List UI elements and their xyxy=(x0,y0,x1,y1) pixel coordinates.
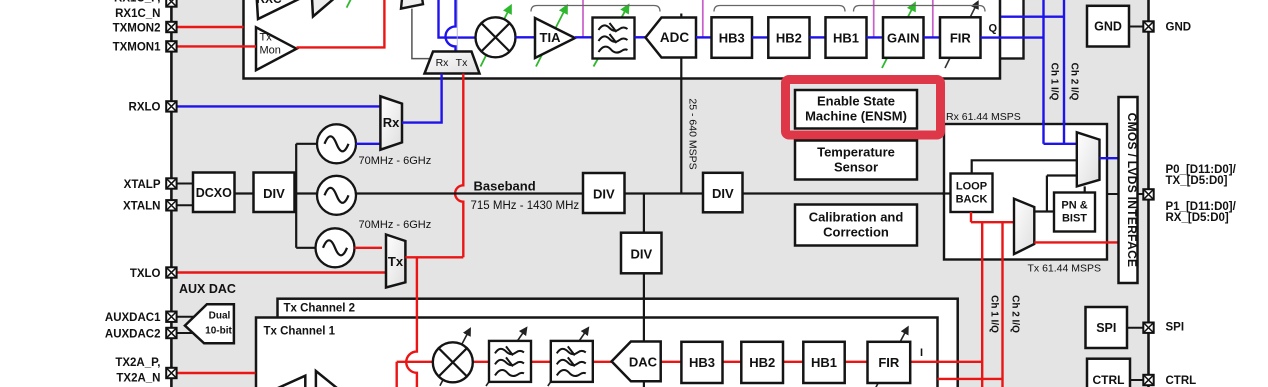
magenta cal line 3 xyxy=(873,0,875,37)
svg-text:Tx Channel 2: Tx Channel 2 xyxy=(284,302,356,314)
wire Tx data mux to PN BIST black xyxy=(1034,176,1077,212)
svg-text:DAC: DAC xyxy=(629,355,658,370)
wire Rx mux output blue xyxy=(402,74,442,123)
svg-text:Ch 1 I/Q: Ch 1 I/Q xyxy=(989,295,1000,333)
mux Rx LO xyxy=(380,96,402,149)
block SPI xyxy=(1086,307,1128,348)
svg-text:TX_[D5:D0]: TX_[D5:D0] xyxy=(1166,175,1228,187)
svg-text:10-bit: 10-bit xyxy=(205,326,232,337)
wire HB1 to GAIN blue xyxy=(867,36,884,38)
block LOOP BACK xyxy=(951,174,993,213)
svg-text:Calibration and: Calibration and xyxy=(809,210,904,225)
magenta cal line 4 xyxy=(932,0,934,37)
filter lowpass Tx 1 xyxy=(489,341,531,382)
chip boundary right edge xyxy=(1147,0,1150,387)
wire DAC clock black xyxy=(643,381,645,387)
magenta cal line 2 xyxy=(702,0,704,37)
svg-text:Correction: Correction xyxy=(823,225,889,240)
amplifier 2 (cut at top) xyxy=(311,0,337,17)
black arrow through FIR Rx xyxy=(945,3,978,69)
pin XTALN xyxy=(166,200,176,210)
svg-text:XTALN: XTALN xyxy=(123,201,160,213)
pin RXLO xyxy=(166,101,176,111)
highlight red box around ENSM xyxy=(786,80,941,136)
svg-text:HB2: HB2 xyxy=(776,30,802,45)
block DIV 1 xyxy=(254,173,295,213)
interface sub-box (loopback group) xyxy=(944,124,1107,260)
Rx Channel 2 box (partial, behind) xyxy=(985,0,1024,59)
svg-text:RXLO: RXLO xyxy=(129,102,161,114)
wire SPI stub xyxy=(1127,327,1144,329)
wire FIR Q output blue xyxy=(981,36,1044,38)
block DIV 3 xyxy=(621,233,662,274)
mux Tx LO xyxy=(386,235,405,288)
wire AUXDAC stubs xyxy=(177,317,194,333)
svg-text:TXLO: TXLO xyxy=(130,268,161,280)
svg-text:BIST: BIST xyxy=(1062,213,1087,225)
svg-text:XTALP: XTALP xyxy=(124,179,161,191)
amplifier Tx PA right (cut) xyxy=(316,371,353,387)
pin TXMON2 xyxy=(166,22,176,32)
wire Tx mux output red xyxy=(405,256,463,258)
svg-text:TX2A_N: TX2A_N xyxy=(116,373,160,385)
green gain arrow through TIA xyxy=(536,7,567,67)
block HB3 Tx xyxy=(681,342,722,383)
block CTRL xyxy=(1087,359,1130,387)
wire GND stub xyxy=(1129,26,1143,28)
wire ADC sample clock black xyxy=(680,14,682,194)
svg-text:HB1: HB1 xyxy=(811,355,837,370)
pin TXLO xyxy=(166,267,176,277)
wire blue from Rx Tx switch up with hop xyxy=(446,0,456,52)
bus Ch2 I/Q blue vertical xyxy=(1063,0,1065,144)
wire HB2 to HB1 blue xyxy=(810,36,826,38)
green gain arrow through Rx mixer xyxy=(481,7,511,67)
svg-text:Rx: Rx xyxy=(383,115,400,130)
wire GAIN to FIR blue xyxy=(924,36,941,38)
svg-text:DIV: DIV xyxy=(630,246,652,261)
block GAIN xyxy=(883,17,924,58)
black arrow through Tx filter 2 xyxy=(548,329,588,387)
svg-text:Ch 1 I/Q: Ch 1 I/Q xyxy=(1049,63,1060,101)
svg-text:RX1C_N: RX1C_N xyxy=(115,8,160,20)
pin RX1C (cut top) xyxy=(166,0,176,7)
svg-text:Dual: Dual xyxy=(209,311,231,322)
wire Rx ch2 output blue xyxy=(1001,16,1064,18)
block Calibration and Correction xyxy=(795,205,917,246)
wire TX2A stub red xyxy=(177,372,256,374)
svg-text:Tx: Tx xyxy=(456,57,468,69)
svg-text:GAIN: GAIN xyxy=(887,30,920,45)
svg-text:RXC: RXC xyxy=(256,0,282,6)
svg-text:PN &: PN & xyxy=(1061,200,1087,212)
svg-text:715 MHz - 1430 MHz: 715 MHz - 1430 MHz xyxy=(471,200,580,212)
bracket 2 xyxy=(714,6,845,12)
wire loopback to Rx data mux black xyxy=(972,160,1077,173)
amplifier RXC (cut at top) xyxy=(255,0,301,19)
svg-text:AUXDAC1: AUXDAC1 xyxy=(105,312,161,324)
block PN & BIST xyxy=(1054,193,1095,232)
bracket 1 xyxy=(531,6,660,12)
wire DIV3 clock vertical xyxy=(643,194,645,300)
wire DCXO to DIV xyxy=(235,192,254,194)
svg-text:Machine (ENSM): Machine (ENSM) xyxy=(805,109,907,124)
pin AUXDAC2 xyxy=(166,328,176,338)
block DIV 2 xyxy=(583,173,625,213)
block HB1 Tx xyxy=(803,342,844,383)
svg-text:DIV: DIV xyxy=(593,186,615,201)
op-amp TIA xyxy=(535,18,575,58)
oscillator 1 (Rx VCO) xyxy=(317,124,356,163)
mux Rx data trapezoid xyxy=(1077,132,1100,186)
svg-text:Ch 2 I/Q: Ch 2 I/Q xyxy=(1069,63,1080,101)
svg-text:HB1: HB1 xyxy=(833,30,859,45)
bus Ch2 I/Q red down xyxy=(1001,222,1003,387)
svg-text:SPI: SPI xyxy=(1096,321,1116,335)
block HB2 Tx xyxy=(741,342,783,383)
amplifier Tx Mon xyxy=(256,27,297,70)
wire osc3 to Tx mux red xyxy=(355,247,383,249)
bus Ch1 I/Q blue vertical (lower) xyxy=(1042,120,1044,144)
wire Tx Mon output red xyxy=(297,0,385,47)
block Temperature Sensor xyxy=(795,141,917,180)
amplifier Tx PA left (cut) xyxy=(272,376,305,387)
wire Rx data mux to PN BIST black xyxy=(1084,186,1086,192)
wire loopback red to Tx data mux xyxy=(971,212,1014,222)
filter lowpass Rx xyxy=(593,18,635,59)
pin CTRL xyxy=(1143,375,1153,385)
svg-text:Enable State: Enable State xyxy=(817,94,895,109)
wire gray control line to Rx Tx switch xyxy=(412,9,429,59)
svg-text:TXMON1: TXMON1 xyxy=(113,42,162,54)
block GND xyxy=(1087,6,1129,47)
svg-text:TXMON2: TXMON2 xyxy=(113,22,161,34)
wire XTALP stub xyxy=(177,183,193,185)
wire TXMON1 red xyxy=(177,45,256,47)
wire Tx baseband signal red xyxy=(397,362,983,387)
block HB1 Rx xyxy=(826,17,867,58)
mixer Rx xyxy=(476,17,516,57)
svg-text:GND: GND xyxy=(1094,20,1122,34)
wire Tx LO branch down red with hop xyxy=(406,257,417,387)
svg-text:HB2: HB2 xyxy=(749,355,775,370)
wire interface box to CMOS stub xyxy=(1107,193,1119,195)
wire XTALN stub xyxy=(177,204,193,206)
chip body gray background xyxy=(171,0,1148,387)
block DIV 4 xyxy=(703,173,743,213)
svg-text:Q: Q xyxy=(989,23,998,35)
svg-text:CTRL: CTRL xyxy=(1166,375,1197,387)
svg-text:AUX DAC: AUX DAC xyxy=(179,282,236,296)
wire RXLO blue xyxy=(177,105,381,107)
wire mixer to TIA blue xyxy=(516,36,536,38)
wire Tx LO down with hop over baseband xyxy=(455,74,463,258)
pin TX2A xyxy=(166,368,176,378)
pin GND xyxy=(1143,21,1153,31)
mux Rx Tx trapezoid xyxy=(425,52,480,74)
pin XTALP xyxy=(166,178,176,188)
bus Ch1 I/Q blue vertical xyxy=(1042,0,1044,144)
wire CMOS to Tx data mux red xyxy=(1034,241,1118,243)
black arrow through Tx filter 1 xyxy=(486,329,526,387)
black arrow through Tx mixer xyxy=(440,329,470,385)
wire filter to ADC blue xyxy=(635,36,648,38)
wire DIV to oscillators black xyxy=(295,144,318,248)
svg-text:Tx: Tx xyxy=(260,32,273,44)
svg-text:TX2A_P,: TX2A_P, xyxy=(115,357,160,369)
bus Ch1 I/Q red down xyxy=(981,222,983,387)
green gain arrow through GAIN xyxy=(882,4,915,68)
wire DIV3 clock through Tx box tops xyxy=(643,297,645,342)
black arrow through FIR Tx xyxy=(875,328,908,387)
svg-text:Baseband: Baseband xyxy=(474,179,536,194)
svg-text:Temperature: Temperature xyxy=(817,145,895,160)
svg-text:Sensor: Sensor xyxy=(834,160,878,175)
wire ADC to HB3 blue xyxy=(696,36,712,38)
mux Tx data trapezoid xyxy=(1014,199,1034,254)
oscillator 2 (BB PLL) xyxy=(317,176,356,215)
svg-text:HB3: HB3 xyxy=(689,355,715,370)
pin P0 P1 ports xyxy=(1143,189,1153,199)
wire blue buses join xyxy=(1044,143,1077,145)
wire baseband clock line black xyxy=(356,192,944,194)
svg-text:CMOS / LVDS INTERFACE: CMOS / LVDS INTERFACE xyxy=(1125,113,1139,268)
svg-text:Tx: Tx xyxy=(388,254,404,269)
mux (cut at top) above gray line xyxy=(401,0,423,9)
Rx Channel 1 box xyxy=(244,0,1001,79)
mixer Tx xyxy=(433,342,473,382)
magenta cal line 1 xyxy=(582,0,584,37)
wire blue LO feed to mixer xyxy=(439,0,476,38)
Tx Channel 1 box xyxy=(256,318,938,387)
wire HB3 to HB2 blue xyxy=(752,36,768,38)
Tx Channel 2 box xyxy=(278,299,958,387)
wire baseband into loopback box xyxy=(942,192,951,194)
svg-text:HB3: HB3 xyxy=(719,30,745,45)
svg-text:Tx 61.44 MSPS: Tx 61.44 MSPS xyxy=(1028,262,1102,274)
block CMOS LVDS INTERFACE xyxy=(1119,97,1138,283)
svg-text:DIV: DIV xyxy=(712,186,734,201)
pin AUXDAC1 xyxy=(166,312,176,322)
svg-text:25 - 640 MSPS: 25 - 640 MSPS xyxy=(687,98,699,169)
wire TXMON2 red xyxy=(177,26,244,28)
wire TXLO red xyxy=(177,271,386,273)
svg-text:DIV: DIV xyxy=(263,186,285,201)
wire CTRL stub xyxy=(1130,379,1144,381)
svg-text:Tx Channel 1: Tx Channel 1 xyxy=(264,325,336,337)
green gain arrow (cut) xyxy=(347,0,352,8)
wire osc1 to Rx mux blue xyxy=(356,143,385,145)
pin TXMON1 xyxy=(166,41,176,51)
DAC converter xyxy=(612,342,661,382)
svg-text:TIA: TIA xyxy=(540,30,562,45)
wire Tx ch2 input red xyxy=(938,378,1003,380)
svg-text:SPI: SPI xyxy=(1166,321,1185,333)
chip boundary left edge xyxy=(170,0,173,387)
svg-text:70MHz - 6GHz: 70MHz - 6GHz xyxy=(359,219,432,231)
block FIR Rx xyxy=(940,17,981,58)
ADC converter xyxy=(646,18,697,58)
svg-text:RX1C_P,: RX1C_P, xyxy=(114,0,160,5)
svg-text:Ch 2 I/Q: Ch 2 I/Q xyxy=(1010,295,1021,333)
filter lowpass Tx 2 xyxy=(551,341,593,382)
svg-text:CTRL: CTRL xyxy=(1093,373,1125,387)
wire CMOS to port pin stub xyxy=(1138,193,1144,195)
bus Ch2 I/Q blue vertical (lower) xyxy=(1063,120,1065,144)
svg-text:FIR: FIR xyxy=(950,30,972,45)
svg-text:FIR: FIR xyxy=(878,355,900,370)
svg-text:BACK: BACK xyxy=(956,194,988,206)
svg-text:ADC: ADC xyxy=(660,30,689,45)
faint lavender calibration line xyxy=(456,0,458,51)
block DCXO xyxy=(193,173,235,213)
svg-text:AUXDAC2: AUXDAC2 xyxy=(105,328,161,340)
pin SPI xyxy=(1143,323,1153,333)
wire Rx data mux to CMOS blue xyxy=(1100,157,1119,159)
svg-text:Mon: Mon xyxy=(260,45,281,57)
oscillator 3 (Tx VCO) xyxy=(316,228,355,267)
block HB3 Rx xyxy=(712,17,753,58)
block HB2 Rx xyxy=(768,17,809,58)
svg-text:DCXO: DCXO xyxy=(196,186,232,200)
svg-text:RX_[D5:D0]: RX_[D5:D0] xyxy=(1166,212,1229,224)
svg-text:I: I xyxy=(920,347,923,359)
svg-text:LOOP: LOOP xyxy=(956,181,987,193)
block ENSM xyxy=(795,90,917,129)
block FIR Tx xyxy=(868,342,911,383)
svg-text:70MHz - 6GHz: 70MHz - 6GHz xyxy=(359,155,432,167)
svg-text:GND: GND xyxy=(1166,22,1192,34)
green gain arrow through Rx filter xyxy=(594,6,629,67)
bracket 3 xyxy=(854,6,986,12)
svg-text:Rx: Rx xyxy=(436,57,450,69)
svg-text:Rx 61.44 MSPS: Rx 61.44 MSPS xyxy=(946,111,1021,123)
AUX DAC Dual 10-bit pentagon xyxy=(185,304,234,343)
wire TIA to filter blue xyxy=(575,36,593,38)
